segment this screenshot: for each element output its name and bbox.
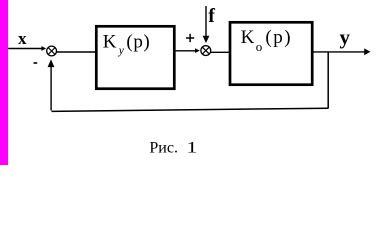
svg-text:x: x (18, 29, 27, 48)
svg-text:y: y (340, 25, 351, 49)
svg-text:K: K (103, 32, 117, 53)
svg-text:(p): (p) (126, 32, 150, 53)
svg-text:Рис.: Рис. (149, 140, 178, 157)
svg-text:f: f (208, 5, 215, 27)
svg-text:(p): (p) (265, 27, 292, 48)
svg-text:o: o (256, 39, 263, 54)
svg-text:y: y (118, 45, 125, 57)
svg-text:1: 1 (186, 139, 197, 156)
svg-text:K: K (241, 27, 255, 48)
